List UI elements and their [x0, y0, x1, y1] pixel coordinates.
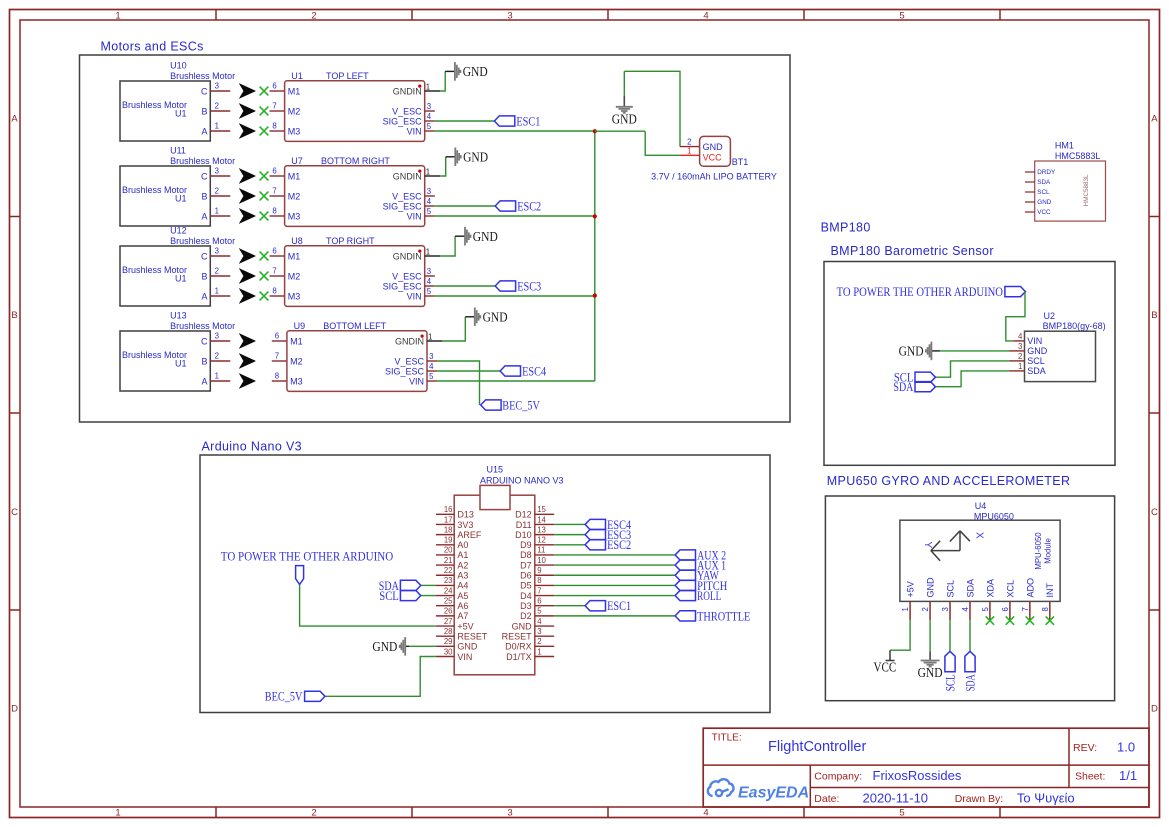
svg-text:14: 14	[537, 515, 546, 524]
svg-text:6: 6	[1001, 607, 1010, 611]
svg-text:3: 3	[215, 247, 219, 256]
svg-text:10: 10	[537, 556, 546, 565]
svg-text:B: B	[11, 310, 17, 321]
svg-text:5: 5	[427, 287, 432, 296]
svg-text:8: 8	[1041, 607, 1050, 611]
svg-text:SDA: SDA	[1037, 179, 1051, 186]
svg-text:M2: M2	[290, 356, 303, 366]
svg-text:1: 1	[426, 83, 430, 92]
svg-text:VIN: VIN	[457, 652, 472, 662]
svg-text:GNDIN: GNDIN	[395, 336, 424, 346]
svg-text:27: 27	[444, 617, 453, 626]
svg-text:1: 1	[215, 122, 219, 131]
svg-text:22: 22	[444, 566, 453, 575]
svg-text:D: D	[11, 704, 18, 715]
svg-text:A: A	[11, 114, 18, 125]
svg-text:HMC5883L: HMC5883L	[1055, 151, 1101, 161]
svg-text:D1/TX: D1/TX	[506, 652, 532, 662]
svg-text:3: 3	[427, 187, 431, 196]
svg-text:4: 4	[703, 11, 708, 22]
svg-text:BEC_5V: BEC_5V	[502, 398, 540, 413]
svg-text:Drawn By:: Drawn By:	[955, 793, 1003, 805]
svg-text:GND: GND	[1037, 199, 1051, 206]
svg-text:8: 8	[272, 122, 276, 131]
svg-text:ESC1: ESC1	[516, 113, 540, 128]
svg-text:8: 8	[272, 207, 276, 216]
svg-text:BOTTOM LEFT: BOTTOM LEFT	[323, 321, 386, 331]
svg-text:GND: GND	[463, 150, 488, 165]
svg-text:1: 1	[687, 146, 691, 155]
svg-text:AREF: AREF	[457, 530, 482, 540]
svg-text:1: 1	[1018, 362, 1022, 371]
svg-text:5: 5	[537, 607, 542, 616]
svg-text:BOTTOM RIGHT: BOTTOM RIGHT	[321, 156, 390, 166]
svg-text:GNDIN: GNDIN	[393, 251, 422, 261]
svg-text:GNDIN: GNDIN	[393, 86, 422, 96]
svg-text:GND: GND	[612, 111, 637, 126]
svg-text:SDA: SDA	[965, 579, 975, 598]
svg-text:A: A	[201, 126, 207, 136]
svg-text:HM1: HM1	[1055, 141, 1074, 151]
svg-text:7: 7	[272, 267, 276, 276]
svg-text:D: D	[1151, 704, 1158, 715]
svg-text:Date:: Date:	[814, 793, 839, 805]
svg-text:+5V: +5V	[906, 581, 916, 597]
svg-text:2: 2	[921, 607, 930, 611]
svg-text:VIN: VIN	[407, 126, 422, 136]
svg-text:1: 1	[215, 372, 219, 381]
svg-text:17: 17	[444, 515, 453, 524]
svg-text:4: 4	[427, 197, 432, 206]
svg-text:A: A	[1151, 114, 1158, 125]
svg-text:ARDUINO NANO V3: ARDUINO NANO V3	[480, 475, 564, 485]
svg-text:TOP RIGHT: TOP RIGHT	[326, 236, 375, 246]
svg-text:GND: GND	[925, 577, 935, 598]
svg-text:U13: U13	[170, 311, 187, 321]
svg-text:1: 1	[215, 207, 219, 216]
svg-text:Arduino Nano V3: Arduino Nano V3	[202, 440, 302, 454]
svg-text:GND: GND	[1027, 346, 1048, 356]
svg-text:A6: A6	[457, 601, 468, 611]
svg-text:U1: U1	[291, 71, 303, 81]
svg-text:SDA: SDA	[962, 674, 977, 691]
svg-text:A1: A1	[457, 550, 468, 560]
svg-text:D2: D2	[520, 611, 532, 621]
svg-text:U10: U10	[170, 61, 187, 71]
svg-text:1.0: 1.0	[1117, 740, 1135, 755]
svg-text:V_ESC: V_ESC	[392, 271, 422, 281]
svg-text:A0: A0	[457, 540, 468, 550]
svg-text:SCL: SCL	[945, 580, 955, 598]
svg-text:RESET: RESET	[502, 631, 533, 641]
svg-text:SIG_ESC: SIG_ESC	[385, 366, 425, 376]
svg-text:D7: D7	[520, 560, 532, 570]
svg-text:3: 3	[941, 607, 950, 611]
svg-text:GND: GND	[483, 310, 508, 325]
svg-text:6: 6	[272, 82, 276, 91]
svg-text:U4: U4	[975, 501, 987, 511]
svg-text:A4: A4	[457, 581, 468, 591]
svg-text:BMP180 Barometric Sensor: BMP180 Barometric Sensor	[831, 244, 994, 258]
svg-text:3: 3	[537, 627, 541, 636]
svg-text:6: 6	[275, 332, 279, 341]
svg-text:REV:: REV:	[1073, 742, 1097, 754]
svg-text:GND: GND	[463, 64, 488, 79]
svg-text:B: B	[201, 191, 207, 201]
svg-text:7: 7	[272, 102, 276, 111]
svg-text:ESC2: ESC2	[607, 537, 631, 552]
svg-text:9: 9	[537, 566, 541, 575]
svg-text:D13: D13	[457, 510, 474, 520]
svg-text:28: 28	[444, 627, 453, 636]
svg-text:3: 3	[215, 332, 219, 341]
svg-text:U1: U1	[175, 194, 187, 204]
svg-text:C: C	[201, 336, 208, 346]
svg-text:VIN: VIN	[409, 376, 424, 386]
svg-text:30: 30	[444, 647, 453, 656]
svg-text:V_ESC: V_ESC	[392, 106, 422, 116]
svg-text:GND: GND	[918, 665, 943, 680]
svg-text:VCC: VCC	[874, 660, 897, 675]
svg-text:7: 7	[537, 586, 541, 595]
svg-text:2: 2	[537, 637, 541, 646]
svg-text:Module: Module	[1044, 538, 1053, 564]
svg-text:HMC5883L: HMC5883L	[1083, 174, 1090, 206]
svg-text:M1: M1	[288, 251, 301, 261]
svg-text:3: 3	[427, 267, 431, 276]
svg-text:12: 12	[537, 536, 546, 545]
svg-text:D6: D6	[520, 571, 532, 581]
svg-text:2: 2	[311, 11, 316, 22]
svg-text:Brushless Motor: Brushless Motor	[170, 71, 235, 81]
svg-text:1: 1	[115, 11, 120, 22]
svg-text:11: 11	[537, 546, 545, 555]
svg-text:M1: M1	[290, 336, 303, 346]
svg-text:X: X	[973, 532, 984, 539]
svg-text:1: 1	[537, 647, 541, 656]
svg-text:ESC2: ESC2	[517, 198, 541, 213]
svg-text:M3: M3	[288, 291, 301, 301]
svg-text:4: 4	[961, 607, 970, 612]
svg-text:A: A	[201, 291, 207, 301]
svg-text:M1: M1	[288, 86, 301, 96]
svg-text:U1: U1	[175, 359, 187, 369]
svg-text:A: A	[201, 376, 207, 386]
svg-text:25: 25	[444, 597, 453, 606]
svg-text:TO POWER THE OTHER ARDUINO: TO POWER THE OTHER ARDUINO	[221, 548, 393, 563]
svg-text:GND: GND	[899, 344, 924, 359]
svg-text:TO POWER THE OTHER ARDUINO: TO POWER THE OTHER ARDUINO	[837, 284, 1003, 299]
svg-text:FrixosRossides: FrixosRossides	[873, 768, 962, 783]
svg-text:SCL: SCL	[1037, 189, 1050, 196]
svg-text:SIG_ESC: SIG_ESC	[383, 116, 423, 126]
svg-text:A5: A5	[457, 591, 468, 601]
svg-text:C: C	[1151, 507, 1158, 518]
svg-text:D10: D10	[515, 530, 532, 540]
svg-text:VCC: VCC	[1037, 209, 1051, 216]
svg-text:U15: U15	[487, 465, 504, 475]
svg-text:2020-11-10: 2020-11-10	[863, 790, 929, 805]
svg-text:U2: U2	[1044, 311, 1056, 321]
svg-text:2: 2	[687, 137, 691, 146]
svg-text:19: 19	[444, 536, 453, 545]
svg-text:A: A	[201, 211, 207, 221]
svg-text:3.7V / 160mAh LIPO BATTERY: 3.7V / 160mAh LIPO BATTERY	[651, 172, 777, 182]
svg-text:20: 20	[444, 546, 453, 555]
svg-text:BMP180: BMP180	[821, 221, 871, 235]
svg-text:3: 3	[1018, 342, 1022, 351]
svg-text:FlightController: FlightController	[768, 739, 866, 755]
svg-text:THROTTLE: THROTTLE	[697, 608, 750, 623]
svg-text:ESC1: ESC1	[607, 598, 631, 613]
svg-text:ROLL: ROLL	[697, 588, 721, 603]
svg-text:1: 1	[901, 607, 910, 611]
svg-text:SCL: SCL	[1027, 356, 1045, 366]
svg-text:26: 26	[444, 607, 453, 616]
svg-text:1: 1	[426, 168, 430, 177]
svg-text:21: 21	[444, 556, 453, 565]
svg-text:U9: U9	[294, 321, 306, 331]
svg-text:ESC3: ESC3	[517, 278, 541, 293]
svg-text:EasyEDA: EasyEDA	[738, 784, 809, 801]
svg-text:D8: D8	[520, 550, 532, 560]
svg-text:GND: GND	[512, 621, 533, 631]
svg-text:TOP LEFT: TOP LEFT	[326, 71, 369, 81]
svg-text:18: 18	[444, 525, 453, 534]
svg-text:4: 4	[1018, 332, 1023, 341]
svg-text:8: 8	[272, 287, 276, 296]
svg-text:2: 2	[215, 352, 219, 361]
svg-text:M2: M2	[288, 106, 301, 116]
svg-text:3: 3	[507, 11, 512, 22]
svg-text:1: 1	[115, 807, 120, 818]
svg-text:M1: M1	[288, 171, 301, 181]
svg-text:3: 3	[427, 102, 431, 111]
svg-text:D5: D5	[520, 581, 532, 591]
svg-text:B: B	[201, 356, 207, 366]
svg-text:D9: D9	[520, 540, 532, 550]
svg-text:XCL: XCL	[1005, 580, 1015, 598]
svg-text:D11: D11	[516, 520, 532, 530]
svg-text:7: 7	[275, 352, 279, 361]
svg-text:SIG_ESC: SIG_ESC	[383, 201, 423, 211]
svg-text:Brushless Motor: Brushless Motor	[170, 321, 235, 331]
svg-text:M3: M3	[290, 376, 303, 386]
svg-text:D12: D12	[515, 510, 532, 520]
svg-text:B: B	[201, 106, 207, 116]
svg-text:15: 15	[537, 505, 546, 514]
svg-text:BT1: BT1	[732, 157, 749, 167]
svg-text:V_ESC: V_ESC	[394, 356, 424, 366]
svg-text:M3: M3	[288, 126, 301, 136]
svg-text:B: B	[1151, 310, 1157, 321]
svg-text:3: 3	[215, 167, 219, 176]
svg-text:4: 4	[703, 807, 708, 818]
svg-text:SIG_ESC: SIG_ESC	[383, 281, 423, 291]
svg-text:GND: GND	[703, 142, 724, 152]
svg-text:5: 5	[899, 807, 904, 818]
svg-text:D4: D4	[520, 591, 532, 601]
svg-text:D0/RX: D0/RX	[505, 642, 532, 652]
svg-text:A2: A2	[457, 560, 468, 570]
svg-text:BEC_5V: BEC_5V	[265, 689, 303, 704]
svg-text:2: 2	[311, 807, 316, 818]
svg-text:ADO: ADO	[1025, 578, 1035, 598]
svg-text:SDA: SDA	[1027, 366, 1046, 376]
svg-text:2: 2	[1018, 352, 1022, 361]
svg-text:4: 4	[427, 112, 432, 121]
svg-text:2: 2	[215, 187, 219, 196]
svg-text:SCL: SCL	[942, 674, 957, 691]
svg-text:MPU650 GYRO AND ACCELEROMETER: MPU650 GYRO AND ACCELEROMETER	[827, 474, 1071, 488]
svg-text:24: 24	[444, 586, 453, 595]
svg-text:Το Ψυγείο: Το Ψυγείο	[1017, 790, 1075, 805]
svg-text:Sheet:: Sheet:	[1075, 770, 1105, 782]
svg-text:5: 5	[427, 207, 432, 216]
svg-text:GND: GND	[473, 229, 498, 244]
svg-text:SCL: SCL	[379, 588, 399, 603]
svg-text:13: 13	[537, 525, 546, 534]
svg-text:BMP180(gy-68): BMP180(gy-68)	[1043, 321, 1106, 331]
svg-text:M2: M2	[288, 191, 301, 201]
svg-text:M3: M3	[288, 211, 301, 221]
svg-text:ESC4: ESC4	[522, 363, 546, 378]
svg-text:VCC: VCC	[703, 152, 723, 162]
svg-text:DRDY: DRDY	[1037, 169, 1056, 176]
svg-text:U8: U8	[291, 236, 303, 246]
svg-text:3: 3	[507, 807, 512, 818]
svg-text:1: 1	[426, 248, 430, 257]
svg-text:23: 23	[444, 576, 453, 585]
svg-text:U11: U11	[170, 146, 186, 156]
svg-text:U1: U1	[175, 274, 187, 284]
svg-text:U1: U1	[175, 109, 187, 119]
svg-text:3: 3	[429, 352, 433, 361]
svg-text:5: 5	[981, 607, 990, 612]
svg-text:A7: A7	[457, 611, 468, 621]
svg-text:B: B	[201, 271, 207, 281]
svg-text:U7: U7	[291, 156, 303, 166]
svg-text:Y: Y	[922, 541, 933, 548]
svg-text:XDA: XDA	[985, 579, 995, 598]
svg-text:+5V: +5V	[457, 621, 473, 631]
svg-text:8: 8	[537, 576, 541, 585]
svg-text:6: 6	[272, 247, 276, 256]
svg-text:1: 1	[215, 287, 219, 296]
svg-text:VIN: VIN	[407, 211, 422, 221]
svg-text:Brushless Motor: Brushless Motor	[170, 236, 235, 246]
svg-text:7: 7	[272, 187, 276, 196]
svg-text:C: C	[201, 171, 208, 181]
svg-text:1: 1	[428, 333, 432, 342]
svg-text:C: C	[11, 507, 18, 518]
svg-text:5: 5	[429, 372, 434, 381]
svg-text:16: 16	[444, 505, 453, 514]
svg-text:GND: GND	[457, 642, 478, 652]
svg-text:Brushless Motor: Brushless Motor	[170, 156, 235, 166]
svg-text:3V3: 3V3	[457, 520, 473, 530]
svg-text:SDA: SDA	[893, 379, 913, 394]
svg-text:M2: M2	[288, 271, 301, 281]
svg-text:5: 5	[899, 11, 904, 22]
svg-text:U12: U12	[170, 226, 187, 236]
svg-text:4: 4	[537, 617, 542, 626]
svg-text:MPU-6050: MPU-6050	[1034, 532, 1043, 570]
svg-text:7: 7	[1021, 607, 1030, 611]
svg-text:4: 4	[429, 362, 434, 371]
svg-text:2: 2	[215, 102, 219, 111]
svg-text:6: 6	[537, 597, 541, 606]
svg-text:4: 4	[427, 277, 432, 286]
svg-text:GND: GND	[372, 639, 397, 654]
svg-text:RESET: RESET	[457, 631, 488, 641]
svg-text:VIN: VIN	[1027, 336, 1042, 346]
svg-text:GNDIN: GNDIN	[393, 171, 422, 181]
svg-text:Company:: Company:	[814, 770, 862, 782]
svg-text:INT: INT	[1045, 583, 1055, 598]
svg-text:1/1: 1/1	[1119, 768, 1137, 783]
svg-text:8: 8	[275, 372, 279, 381]
svg-text:5: 5	[427, 122, 432, 131]
svg-text:VIN: VIN	[407, 291, 422, 301]
svg-text:TITLE:: TITLE:	[712, 733, 742, 744]
svg-text:Motors and ESCs: Motors and ESCs	[101, 39, 204, 53]
svg-text:29: 29	[444, 637, 453, 646]
svg-text:3: 3	[215, 82, 219, 91]
svg-text:D3: D3	[520, 601, 532, 611]
svg-text:C: C	[201, 86, 208, 96]
svg-text:2: 2	[215, 267, 219, 276]
svg-text:C: C	[201, 251, 208, 261]
svg-text:6: 6	[272, 167, 276, 176]
svg-text:A3: A3	[457, 571, 468, 581]
svg-text:V_ESC: V_ESC	[392, 191, 422, 201]
